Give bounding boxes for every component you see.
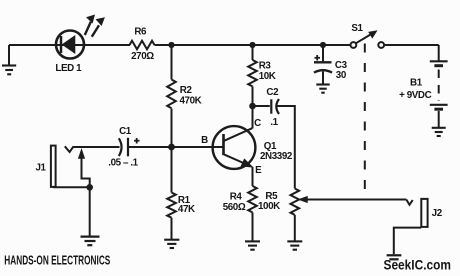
switch S1 throw circle [378, 42, 384, 48]
jack J1 switch contact arrowhead [79, 150, 85, 159]
wire: R5 lower lead [294, 215, 296, 242]
transistor Q1 body circle [213, 126, 256, 169]
ground (R5) [287, 241, 302, 249]
capacitor C1 straight plate [127, 138, 129, 157]
wire: R1 lower lead [171, 218, 173, 240]
node: C3 top junction [320, 42, 326, 48]
svg-text:+ 9VDC: + 9VDC [399, 90, 432, 101]
capacitor C2 straight plate [270, 99, 272, 113]
capacitor C3 plates [314, 62, 332, 72]
svg-text:100K: 100K [258, 201, 280, 212]
wire: R6 to switch S1 [155, 44, 351, 46]
transistor Q1 emitter arrowhead [241, 159, 252, 167]
resistor R6 [130, 41, 155, 50]
svg-text:270Ω: 270Ω [131, 51, 154, 62]
resistor R5 (potentiometer) [290, 189, 299, 215]
capacitor C3 polarity plus [315, 55, 321, 61]
resistor R1 [167, 193, 176, 218]
svg-text:HANDS-ON ELECTRONICS: HANDS-ON ELECTRONICS [4, 252, 110, 267]
svg-text:.05 – .1: .05 – .1 [108, 157, 138, 168]
svg-text:C1: C1 [119, 126, 132, 137]
jack J2 body [421, 199, 427, 227]
node: R3 top junction [249, 42, 255, 48]
node: base node junction (C1/R2/R1) [168, 144, 175, 151]
wire: battery top lead [438, 45, 440, 61]
wire: C3 bottom lead [322, 72, 324, 85]
transistor Q1 emitter stroke [224, 154, 248, 165]
svg-text:R3: R3 [259, 61, 272, 72]
svg-text:C2: C2 [266, 87, 279, 98]
node: collector/C2 junction [249, 103, 256, 110]
wire: left ground drop [8, 45, 10, 66]
wire: emitter to R4 [252, 167, 254, 186]
node: R6/R2 junction [168, 42, 174, 48]
switch S1 lever [356, 35, 371, 44]
transistor Q1 base bar [222, 134, 225, 155]
wire: R2 upper lead [171, 45, 173, 80]
battery B1 dashed middle link [438, 70, 440, 102]
svg-text:10K: 10K [259, 71, 276, 82]
svg-text:B1: B1 [410, 77, 423, 88]
LED D1 body [56, 31, 84, 59]
LED cathode bar [60, 36, 63, 53]
battery B1 cell plates [430, 61, 448, 109]
LED light arrow 1 [85, 16, 94, 36]
switch S1 pole circle [351, 42, 357, 48]
svg-text:470K: 470K [180, 95, 202, 106]
svg-text:560Ω: 560Ω [223, 202, 246, 213]
potentiometer R5 wiper arrowhead [299, 197, 307, 203]
svg-text:30: 30 [336, 70, 347, 81]
wire: battery bottom lead [438, 111, 440, 128]
svg-text:C: C [254, 118, 261, 129]
ground (J2, partly behind logo) [387, 255, 402, 259]
wire: J1 node down to ground [89, 187, 91, 236]
LED light arrow 2 [92, 18, 104, 37]
jack J1 body [51, 146, 56, 187]
ground (left rail) [2, 66, 16, 75]
ground (R1) [164, 240, 179, 248]
resistor R4 [248, 186, 257, 212]
wire: R1 upper lead [171, 147, 173, 193]
ground (R4) [245, 241, 260, 249]
wire: R5 wiper to J2 [307, 199, 407, 201]
wire: S1 to battery B1 [384, 44, 439, 46]
svg-text:47K: 47K [178, 204, 195, 215]
ground (C3) [316, 85, 329, 93]
svg-text:.1: .1 [270, 117, 278, 128]
svg-text:S1: S1 [351, 23, 363, 34]
transistor Q1 collector stroke [224, 128, 252, 141]
wire: J1 sleeve to ground node [53, 186, 89, 188]
svg-text:R6: R6 [134, 27, 147, 38]
jack J1 switch contact arm [82, 157, 90, 187]
wire: C2 left lead [253, 105, 270, 107]
svg-text:J2: J2 [432, 208, 443, 219]
switch S1 lever arrowhead [369, 31, 377, 38]
svg-text:J1: J1 [35, 163, 46, 174]
wire: R3 lower lead to collector node [252, 86, 254, 106]
wire: C3 top lead [322, 45, 324, 62]
wire: J1 tip to C1 [74, 146, 120, 148]
wire: R2 lower lead to base node [171, 109, 173, 148]
wire: C1 to Q1 base [128, 146, 224, 148]
capacitor C1 polarity plus [134, 138, 140, 144]
svg-text:LED 1: LED 1 [55, 63, 82, 74]
jack J2 tip contact [406, 200, 412, 205]
jack J1 tip contact [65, 146, 74, 152]
ground (J1) [81, 237, 100, 246]
ground (battery B1) [432, 128, 446, 136]
node: J1 ground junction [86, 184, 93, 191]
LED triangle (anode) [63, 36, 75, 53]
wire: collector to C2 node [252, 106, 254, 129]
wire: R4 lower lead [252, 212, 254, 241]
wire: C2 right lead and drop to R5 [277, 106, 295, 189]
dashed mechanical link S1 to R5 [364, 44, 366, 192]
svg-text:SeekIC.com: SeekIC.com [384, 256, 452, 272]
svg-text:E: E [255, 165, 262, 176]
capacitor C1 curved plate [119, 138, 122, 156]
resistor R2 [167, 80, 176, 109]
wire: R3 upper lead [252, 45, 254, 60]
svg-text:2N3392: 2N3392 [260, 151, 293, 162]
wire: J2 sleeve to ground [394, 228, 422, 255]
wire: left rail horizontal to LED and R6 [9, 44, 130, 46]
svg-text:B: B [201, 135, 208, 146]
capacitor C2 curved plate [276, 99, 279, 114]
resistor R3 [248, 60, 257, 86]
